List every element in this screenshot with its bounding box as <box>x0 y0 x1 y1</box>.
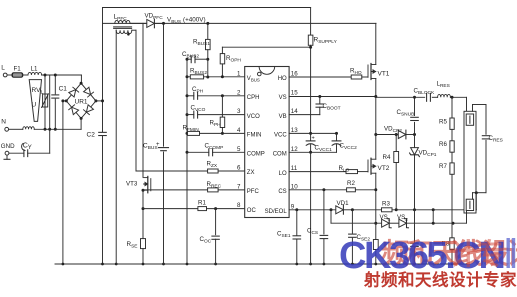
svg-text:9: 9 <box>291 203 295 210</box>
resistor R_PH <box>210 96 225 135</box>
resistor R_FMIN / wire pin4 <box>183 124 245 135</box>
svg-text:HO: HO <box>278 76 287 82</box>
capacitor C_RES <box>482 105 503 193</box>
svg-text:R5: R5 <box>439 118 447 125</box>
svg-text:16: 16 <box>291 71 298 78</box>
wire EOL riser <box>475 193 477 210</box>
wire VT3 source <box>142 189 145 239</box>
op-amp U1 IC body <box>245 67 289 218</box>
svg-text:6: 6 <box>237 165 241 172</box>
wire <box>351 208 382 211</box>
resistor R_ZX / wire pin6 ZX <box>136 161 245 174</box>
svg-text:R6: R6 <box>439 141 447 148</box>
wire pin13 VCC <box>289 132 338 135</box>
resistor R1 / wire pin8 OC <box>143 199 245 210</box>
capacitor C_SNUB <box>397 96 419 135</box>
capacitor C_COMP / wire pin5 <box>187 143 245 156</box>
capacitor C_BUS <box>143 23 169 264</box>
resistor R_BUS1 <box>193 22 210 79</box>
wire VT1 drain <box>375 23 377 64</box>
resistor R_OPH <box>220 47 241 78</box>
svg-text:13: 13 <box>291 127 298 134</box>
svg-text:计专: 计专 <box>449 238 504 271</box>
wire <box>9 128 23 130</box>
svg-text:R7: R7 <box>439 163 447 170</box>
svg-text:5: 5 <box>237 146 241 153</box>
transistor VT2 <box>368 158 390 174</box>
pin 13 label <box>274 127 298 139</box>
diode VD_CP2 <box>376 126 416 139</box>
svg-text:12: 12 <box>291 146 298 153</box>
capacitor C_SE3 <box>411 210 419 264</box>
svg-text:VT1: VT1 <box>378 70 390 77</box>
pin 11 label <box>279 165 298 177</box>
svg-text:VT3: VT3 <box>126 181 138 188</box>
resistor R5 <box>439 97 454 129</box>
svg-text:COM: COM <box>273 152 287 158</box>
svg-text:10: 10 <box>291 183 298 190</box>
svg-text:2: 2 <box>237 89 241 96</box>
wire VT2 source <box>374 173 377 225</box>
varistor RV1 <box>42 74 49 131</box>
svg-text:7: 7 <box>237 183 241 190</box>
svg-text:VT2: VT2 <box>378 165 390 172</box>
wire L_PFC aux right to ZX <box>135 30 137 171</box>
capacitor C_BUS2 <box>182 51 208 63</box>
wire IC left ground bus <box>186 58 189 264</box>
pin 10 label <box>278 183 298 195</box>
resistor R_HO / wire pin16 <box>289 67 368 79</box>
capacitor C_VCC1 <box>306 136 332 154</box>
wire lamp top left pin <box>466 97 468 111</box>
svg-text:射频和天线设计专家: 射频和天线设计专家 <box>363 270 517 290</box>
wire VT1 source <box>375 79 377 97</box>
pin 8 label <box>237 202 256 214</box>
capacitor C_BOOT <box>316 97 341 115</box>
svg-text:R2: R2 <box>347 180 355 187</box>
resistor R_REC / wire pin7 PFC <box>143 181 245 192</box>
resistor R6 <box>439 129 454 152</box>
zener VS1 <box>331 210 399 228</box>
wire <box>9 152 24 154</box>
wire pin15 VS <box>289 95 377 98</box>
svg-text:U: U <box>32 102 37 109</box>
capacitor C_CS <box>307 190 328 264</box>
svg-text:15: 15 <box>291 89 298 96</box>
svg-text:L: L <box>1 65 5 72</box>
fuse F1 <box>12 66 22 78</box>
svg-text:VCO: VCO <box>247 114 260 120</box>
wire ground rail <box>55 263 467 266</box>
pin 6 label <box>237 165 254 177</box>
svg-text:GND: GND <box>1 143 15 150</box>
svg-text:F1: F1 <box>14 66 22 73</box>
wire L row <box>42 74 82 76</box>
resistor R_BUS2 / wire pin1 <box>187 68 245 79</box>
terminal L <box>1 65 7 77</box>
capacitor C_SE1 <box>277 210 301 264</box>
svg-text:(+400V): (+400V) <box>183 16 206 23</box>
transistor VT1 <box>368 64 390 80</box>
pin 7 label <box>237 183 259 195</box>
wire top auxiliary rail <box>103 7 311 9</box>
capacitor C1 <box>52 74 67 131</box>
wire bridge plus <box>96 99 104 102</box>
pin 16 label <box>278 71 299 83</box>
svg-text:+: + <box>312 136 315 142</box>
wire <box>23 74 28 76</box>
svg-text:14: 14 <box>291 108 298 115</box>
svg-text:OC: OC <box>247 208 257 214</box>
svg-text:Y: Y <box>28 145 32 151</box>
bridge rectifier UR1 <box>65 82 98 120</box>
pin 15 label <box>279 89 299 101</box>
svg-text:VD1: VD1 <box>337 200 350 207</box>
svg-text:11: 11 <box>291 165 298 172</box>
svg-text:VBUS: VBUS <box>247 76 260 82</box>
resistor R_SUPPLY <box>308 8 337 134</box>
wire stub <box>432 210 434 223</box>
resistor R7 <box>439 152 454 174</box>
inductor L_RES <box>432 81 450 98</box>
resistor R9 shunt <box>373 223 378 264</box>
inductor L_PFC <box>114 14 137 36</box>
capacitor C_SE2 <box>349 210 371 264</box>
svg-text:4: 4 <box>237 127 241 134</box>
resistor R_LO / wire pin11 <box>289 165 368 174</box>
pin 9 label <box>265 203 295 215</box>
resistor R2 / wire pin10 CS <box>289 180 376 192</box>
pin 12 label <box>273 146 299 158</box>
capacitor CY <box>22 143 50 157</box>
wire N row <box>34 128 81 130</box>
resistor R8 <box>442 223 455 264</box>
svg-text:FMIN: FMIN <box>247 133 262 139</box>
capacitor C2 <box>87 132 107 139</box>
svg-text:R3: R3 <box>382 201 390 208</box>
node V_BUS junction <box>162 22 165 25</box>
svg-text:CPH: CPH <box>247 95 260 101</box>
pin 14 label <box>279 108 299 120</box>
wire bridge minus column <box>61 99 66 264</box>
resistor R4 <box>383 133 399 210</box>
zener VS2 <box>397 214 467 228</box>
wire left bus column <box>102 8 104 265</box>
svg-text:R4: R4 <box>383 154 391 161</box>
wire pin9 SD/EOL <box>289 208 336 211</box>
svg-text:8: 8 <box>237 202 241 209</box>
choke core outline / RV1 label <box>29 80 43 122</box>
terminal GND <box>1 143 15 160</box>
wire <box>450 96 466 99</box>
pin 2 label <box>237 89 259 101</box>
svg-text:VS: VS <box>279 95 287 101</box>
wire <box>451 174 453 223</box>
wire resonant output <box>376 96 425 98</box>
wire pin14 VB <box>289 114 320 116</box>
inductor L1 <box>28 66 42 76</box>
wire R_OPH to R_SUPPLY <box>222 46 310 48</box>
svg-text:COMP: COMP <box>247 152 265 158</box>
wire L_PFC aux left to ground <box>115 30 117 264</box>
capacitor C_PH / wire pin2 <box>187 86 245 99</box>
watermark <box>339 235 517 290</box>
capacitor C_VCC2 <box>332 133 357 152</box>
wire bridge AC2 <box>80 118 82 129</box>
wire lamp bottom left pin <box>466 211 468 224</box>
zener VD_CP1 <box>410 135 437 210</box>
wire half-bridge node to VT2 drain <box>374 97 377 160</box>
label V_BUS <box>167 16 206 25</box>
resistor R3 / wire EOL sense <box>382 201 477 212</box>
pin 5 label <box>237 146 265 158</box>
svg-text:C1: C1 <box>59 85 68 92</box>
pin 3 label <box>237 108 260 120</box>
svg-text:VB: VB <box>279 114 287 120</box>
wire lamp top right pin <box>473 105 487 112</box>
diode VD_PFC <box>130 13 164 28</box>
wire CY riser <box>48 76 51 153</box>
wire C_RES bottom <box>473 191 487 199</box>
transistor VT3 <box>126 176 151 192</box>
svg-text:UR1: UR1 <box>75 99 88 106</box>
pin 1 label <box>237 71 260 83</box>
wire <box>80 75 82 83</box>
svg-text:SD/EOL: SD/EOL <box>265 209 288 215</box>
lamp tube <box>464 111 476 213</box>
resistor R_SE <box>127 239 146 264</box>
capacitor C_VCO / wire pin3 <box>187 105 245 119</box>
terminal N <box>1 119 8 132</box>
svg-text:3: 3 <box>237 108 241 115</box>
inductor choke N winding <box>23 127 35 130</box>
capacitor C_OC <box>200 209 220 264</box>
wire V_BUS rail <box>103 22 377 24</box>
wire <box>7 74 12 76</box>
wire pin12 COM <box>289 151 336 153</box>
pin 4 label <box>237 127 261 139</box>
svg-text:L1: L1 <box>31 66 38 73</box>
capacitor C_BLOCK <box>414 88 436 102</box>
svg-text:1: 1 <box>237 71 241 78</box>
svg-text:PFC: PFC <box>247 189 260 195</box>
svg-text:R1: R1 <box>198 199 206 206</box>
svg-text:N: N <box>1 119 6 126</box>
svg-text:ZX: ZX <box>247 170 255 176</box>
svg-text:CS: CS <box>278 189 286 195</box>
svg-text:C2: C2 <box>87 132 96 139</box>
wire COM to ground <box>310 152 312 264</box>
svg-text:LO: LO <box>279 171 287 177</box>
wire VT3 drain <box>142 23 144 176</box>
diode VD1 <box>336 200 353 214</box>
wire VCC column <box>309 132 312 141</box>
svg-text:VCC: VCC <box>274 133 287 139</box>
